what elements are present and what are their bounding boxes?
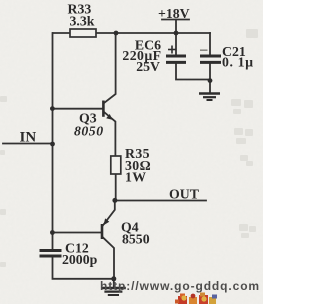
svg-text:2000p: 2000p [62,252,98,267]
svg-text:25V: 25V [136,59,160,74]
svg-text:http://www.go-gddq.com: http://www.go-gddq.com [100,279,260,293]
svg-text:+18V: +18V [158,6,190,21]
svg-text:1W: 1W [125,170,147,185]
svg-text:OUT: OUT [169,187,199,202]
svg-text:0. 1µ: 0. 1µ [222,55,254,70]
svg-text:8550: 8550 [122,232,150,247]
svg-text:8050: 8050 [74,123,104,138]
svg-text:IN: IN [20,130,37,146]
svg-text:3.3k: 3.3k [70,14,95,29]
